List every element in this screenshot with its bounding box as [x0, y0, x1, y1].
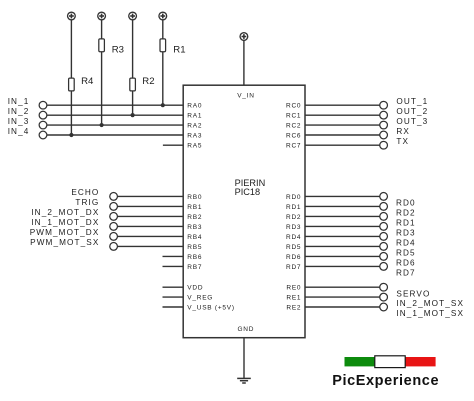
svg-text:R1: R1 — [173, 44, 185, 55]
wire RE row to IN_2_MOT_SX — [305, 296, 380, 298]
IC U1 PIERIN PIC18 body — [183, 85, 305, 338]
svg-text:IN_4: IN_4 — [8, 127, 30, 136]
svg-text:RD0: RD0 — [286, 194, 301, 201]
port RX — [380, 131, 388, 139]
wire IN_2_MOT_DX to RB — [117, 215, 183, 217]
wire R3 top — [101, 20, 103, 39]
svg-text:ECHO: ECHO — [71, 188, 99, 197]
wire R2 bottom — [132, 91, 134, 115]
svg-text:RD4: RD4 — [286, 234, 301, 241]
svg-text:R2: R2 — [142, 76, 154, 87]
svg-text:RB1: RB1 — [187, 204, 202, 211]
svg-text:RD0: RD0 — [396, 199, 416, 208]
svg-text:IN_1_MOT_DX: IN_1_MOT_DX — [31, 218, 99, 227]
svg-text:RC2: RC2 — [286, 122, 301, 129]
svg-text:IN_2: IN_2 — [8, 107, 30, 116]
port RD2 — [380, 203, 388, 211]
svg-text:RA5: RA5 — [187, 143, 202, 150]
svg-text:RD1: RD1 — [396, 219, 416, 228]
svg-text:RA1: RA1 — [187, 113, 202, 120]
wire RD row to RD4 — [305, 235, 380, 237]
svg-text:PIC18: PIC18 — [235, 187, 261, 197]
svg-text:RB5: RB5 — [187, 244, 202, 251]
wire RD row to RD2 — [305, 205, 380, 207]
ground symbol — [237, 378, 251, 383]
junction R2 net — [131, 113, 135, 117]
junction R4 net — [69, 133, 73, 137]
svg-text:R3: R3 — [112, 44, 124, 55]
wire TRIG to RB — [117, 205, 183, 207]
power terminal + for R1 — [159, 12, 167, 20]
port IN_1_MOT_DX — [110, 223, 118, 231]
svg-text:RD2: RD2 — [286, 214, 301, 221]
power terminal + for R4 — [68, 12, 76, 20]
wire R1 top — [162, 20, 164, 39]
svg-text:V_USB (+5V): V_USB (+5V) — [187, 304, 234, 311]
port SERVO — [380, 283, 388, 291]
svg-text:OUT_2: OUT_2 — [396, 107, 428, 116]
power terminal + for R2 — [129, 12, 137, 20]
resistor R1 — [160, 39, 186, 56]
power terminal + V_IN — [240, 33, 248, 41]
wire R4 bottom — [70, 91, 72, 135]
svg-text:RX: RX — [396, 127, 410, 136]
resistor R2 — [130, 76, 155, 91]
svg-text:RD7: RD7 — [396, 269, 416, 278]
svg-text:TRIG: TRIG — [75, 198, 99, 207]
svg-text:RA0: RA0 — [187, 103, 202, 110]
svg-text:SERVO: SERVO — [396, 289, 430, 298]
port IN_2_MOT_DX — [110, 213, 118, 221]
port PWM_MOT_DX — [110, 233, 118, 241]
wire RD row to RD0 — [305, 195, 380, 197]
wire RC to TX — [305, 144, 380, 146]
wire RA5 stub — [163, 144, 183, 146]
svg-text:RD5: RD5 — [286, 244, 301, 251]
svg-text:PicExperience: PicExperience — [332, 373, 439, 389]
svg-text:RB3: RB3 — [187, 224, 202, 231]
wire ECHO to RB — [117, 195, 183, 197]
svg-text:RE0: RE0 — [286, 285, 301, 292]
wire RD row to RD7 — [305, 265, 380, 267]
svg-text:RD1: RD1 — [286, 204, 301, 211]
svg-text:R4: R4 — [81, 76, 94, 87]
svg-text:RD3: RD3 — [396, 229, 416, 238]
wire PWM_MOT_DX to RB — [117, 235, 183, 237]
wire IN_3 to RA — [47, 124, 183, 126]
wire RD row to RD6 — [305, 255, 380, 257]
port IN_3 — [39, 121, 47, 129]
svg-text:RB7: RB7 — [187, 264, 202, 271]
wire RB6 stub — [163, 255, 184, 257]
port IN_4 — [39, 131, 47, 139]
port OUT_1 — [380, 101, 388, 109]
svg-text:RB4: RB4 — [187, 234, 202, 241]
power terminal + for R3 — [98, 12, 106, 20]
svg-text:GND: GND — [237, 326, 254, 333]
wire VDD stub — [163, 286, 184, 288]
wire V_IN — [243, 40, 245, 85]
resistor R4 — [69, 76, 94, 91]
svg-text:PWM_MOT_DX: PWM_MOT_DX — [30, 228, 100, 237]
svg-text:RC7: RC7 — [286, 143, 301, 150]
svg-text:RD6: RD6 — [396, 259, 416, 268]
junction R3 net — [100, 123, 104, 127]
wire V_USB stub — [163, 306, 184, 308]
wire RD row to RD3 — [305, 225, 380, 227]
port IN_1_MOT_SX — [380, 303, 388, 311]
svg-text:RE2: RE2 — [286, 304, 301, 311]
junction R1 net — [161, 103, 165, 107]
wire R1 bottom — [162, 52, 164, 105]
svg-text:VDD: VDD — [187, 285, 203, 292]
wire IN_1_MOT_DX to RB — [117, 225, 183, 227]
svg-text:RD4: RD4 — [396, 239, 416, 248]
port RD7 — [380, 263, 388, 271]
port ECHO — [110, 193, 118, 201]
svg-text:V_IN: V_IN — [237, 93, 254, 100]
svg-text:RA3: RA3 — [187, 132, 202, 139]
svg-text:RD6: RD6 — [286, 254, 301, 261]
svg-text:IN_2_MOT_SX: IN_2_MOT_SX — [396, 299, 464, 308]
svg-text:RD2: RD2 — [396, 209, 416, 218]
wire RC to OUT_3 — [305, 124, 380, 126]
port IN_2_MOT_SX — [380, 293, 388, 301]
wire IN_1 to RA — [47, 104, 183, 106]
wire IN_4 to RA — [47, 134, 183, 136]
port RD0 — [380, 193, 388, 201]
svg-text:IN_1_MOT_SX: IN_1_MOT_SX — [396, 309, 464, 318]
port RD1 — [380, 213, 388, 221]
port RD4 — [380, 233, 388, 241]
wire R2 top — [132, 20, 134, 78]
logo Italian flag — [345, 356, 436, 368]
svg-text:OUT_1: OUT_1 — [396, 97, 428, 106]
svg-text:RB2: RB2 — [187, 214, 202, 221]
resistor R3 — [99, 39, 124, 56]
svg-text:PWM_MOT_SX: PWM_MOT_SX — [30, 238, 99, 247]
wire R3 bottom — [101, 52, 103, 125]
port TX — [380, 141, 388, 149]
wire RD row to RD1 — [305, 215, 380, 217]
svg-text:RE1: RE1 — [286, 295, 301, 302]
port OUT_2 — [380, 111, 388, 119]
svg-text:OUT_3: OUT_3 — [396, 117, 428, 126]
svg-text:RB6: RB6 — [187, 254, 202, 261]
port OUT_3 — [380, 121, 388, 129]
svg-text:IN_2_MOT_DX: IN_2_MOT_DX — [31, 208, 99, 217]
svg-text:RD3: RD3 — [286, 224, 301, 231]
svg-text:RB0: RB0 — [187, 194, 202, 201]
wire RC to OUT_2 — [305, 114, 380, 116]
port RD6 — [380, 253, 388, 261]
wire RB7 stub — [163, 265, 184, 267]
port RD5 — [380, 243, 388, 251]
wire V_REG stub — [163, 296, 184, 298]
port TRIG — [110, 203, 118, 211]
svg-text:V_REG: V_REG — [187, 295, 213, 302]
wire IN_2 to RA — [47, 114, 183, 116]
wire RE row to SERVO — [305, 286, 380, 288]
wire RC to OUT_1 — [305, 104, 380, 106]
svg-text:RC0: RC0 — [286, 103, 301, 110]
svg-text:RD5: RD5 — [396, 249, 416, 258]
svg-text:IN_3: IN_3 — [8, 117, 30, 126]
wire RD row to RD5 — [305, 245, 380, 247]
wire RE row to IN_1_MOT_SX — [305, 306, 380, 308]
svg-text:IN_1: IN_1 — [8, 97, 30, 106]
svg-text:TX: TX — [396, 137, 409, 146]
wire GND — [243, 338, 245, 379]
port IN_2 — [39, 111, 47, 119]
svg-text:RA2: RA2 — [187, 122, 202, 129]
wire RC to RX — [305, 134, 380, 136]
svg-text:RC6: RC6 — [286, 132, 301, 139]
wire R4 top — [70, 20, 72, 78]
wire PWM_MOT_SX to RB — [117, 245, 183, 247]
svg-text:RC1: RC1 — [286, 113, 301, 120]
svg-text:RD7: RD7 — [286, 264, 301, 271]
port IN_1 — [39, 101, 47, 109]
port PWM_MOT_SX — [110, 243, 118, 251]
port RD3 — [380, 223, 388, 231]
